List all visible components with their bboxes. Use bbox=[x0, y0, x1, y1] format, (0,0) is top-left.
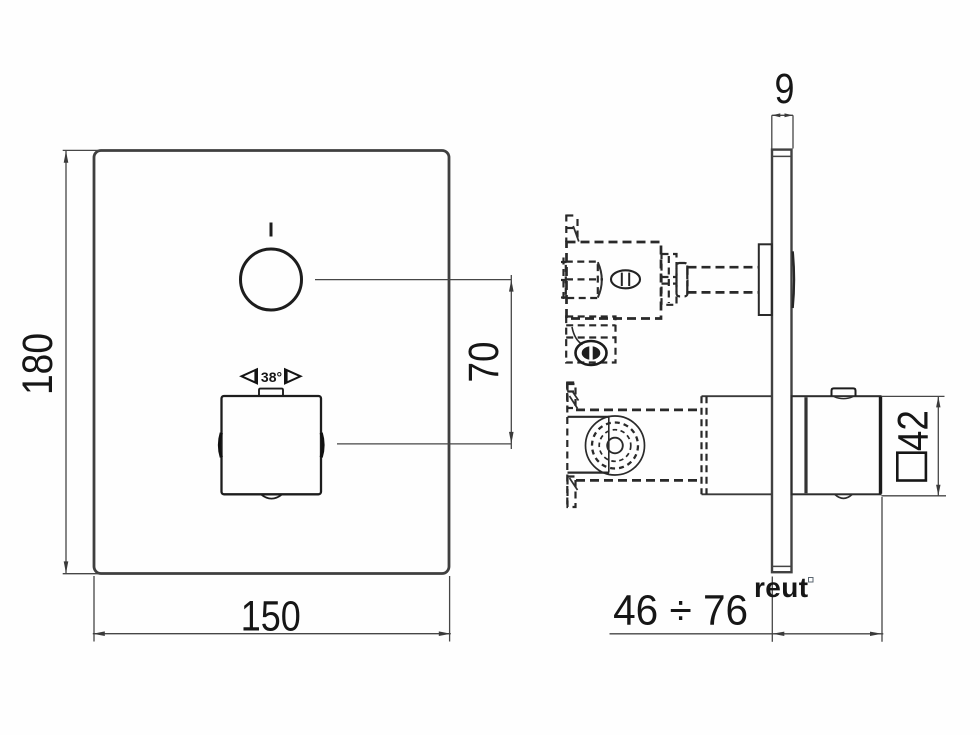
knob top tab bbox=[259, 389, 283, 396]
inter bracket bits bbox=[567, 382, 578, 402]
reut logo bbox=[754, 572, 813, 603]
38° label with arrows bbox=[242, 369, 301, 385]
lower wall bracket bbox=[567, 383, 577, 509]
dimension square 42 bbox=[882, 396, 947, 495]
handle bottom arc bbox=[835, 494, 852, 498]
knob side grip left bbox=[219, 433, 221, 458]
side view wall plate bbox=[772, 150, 792, 573]
neck steps bbox=[662, 254, 677, 305]
svg-text:reut: reut bbox=[754, 572, 809, 603]
svg-text:42: 42 bbox=[890, 410, 938, 451]
upper left flange bbox=[561, 258, 567, 303]
handle top tab bbox=[832, 388, 856, 398]
collar bbox=[677, 263, 688, 296]
cartridge circles bbox=[586, 416, 645, 475]
svg-text:9: 9 bbox=[775, 65, 795, 113]
svg-text:150: 150 bbox=[241, 593, 301, 641]
dimension 70 leader from knob bbox=[315, 275, 514, 449]
handle side box bbox=[792, 396, 881, 494]
dimension 180 bbox=[14, 150, 100, 573]
upper mounting bracket (chimney) bbox=[566, 215, 579, 243]
svg-text:70: 70 bbox=[460, 342, 508, 383]
svg-text:180: 180 bbox=[14, 333, 62, 395]
screw oval bbox=[611, 270, 640, 288]
stem cylinder bbox=[688, 267, 759, 292]
lower bracket arms bbox=[568, 417, 610, 473]
outlet elbow bbox=[566, 317, 615, 363]
inlet capsule bbox=[566, 262, 603, 298]
upper assembly: valve body (hidden) bbox=[567, 242, 662, 319]
drain screw bbox=[576, 341, 607, 365]
knob indicator tick bbox=[270, 223, 273, 237]
dimension 150 bbox=[93, 576, 451, 642]
dimension 9 bbox=[772, 65, 795, 149]
knob bottom arc bbox=[261, 494, 282, 498]
knob side grip right bbox=[321, 433, 323, 458]
on/off knob bbox=[241, 249, 302, 310]
lower mounting box bbox=[702, 396, 772, 494]
lower valve body (hidden) bbox=[576, 410, 701, 481]
svg-text:38°: 38° bbox=[261, 369, 282, 385]
temperature knob square bbox=[222, 396, 322, 494]
upper mounting box bbox=[759, 244, 772, 315]
front plate bbox=[94, 151, 449, 574]
dimension 46÷76 bbox=[610, 497, 884, 642]
svg-text:46 ÷ 76: 46 ÷ 76 bbox=[613, 586, 748, 634]
top knob side lens bbox=[793, 251, 794, 308]
